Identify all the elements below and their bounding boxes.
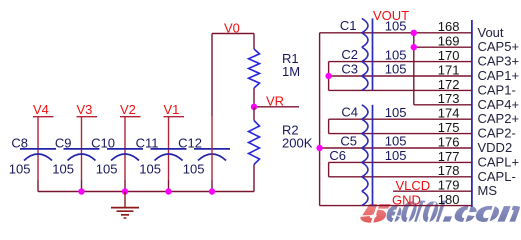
wire pin 172 row — [329, 89, 472, 91]
value 105 of C10 — [96, 161, 118, 176]
svg-text:C12: C12 — [178, 136, 202, 151]
ground — [111, 192, 139, 219]
label C8 — [11, 136, 28, 151]
svg-text:180: 180 — [438, 192, 460, 207]
label C12 — [178, 136, 202, 151]
wire VR to R2 — [253, 107, 255, 121]
value 105 of C9 — [52, 161, 74, 176]
svg-text:C11: C11 — [136, 136, 159, 151]
svg-text:172: 172 — [438, 77, 460, 92]
wire V4 to C8 — [37, 117, 39, 192]
pin number 175 — [438, 120, 460, 135]
pin name CAPL- — [478, 169, 516, 184]
pin number 180 — [438, 192, 460, 207]
net label VLCD — [396, 178, 431, 193]
value 200K — [282, 136, 313, 151]
wire V3 to C9 — [81, 117, 83, 192]
value 105 of C5 — [385, 134, 407, 149]
wire R1 to VR node — [253, 88, 255, 107]
label C2 — [341, 47, 358, 62]
junction on ground rail — [209, 188, 215, 194]
svg-text:105: 105 — [139, 161, 161, 176]
svg-text:CAP2-: CAP2- — [478, 126, 516, 141]
svg-text:179: 179 — [438, 178, 460, 193]
capacitor C10 — [107, 149, 143, 161]
svg-text:178: 178 — [438, 163, 460, 178]
pin name CAP1- — [478, 82, 516, 97]
svg-text:CAP4+: CAP4+ — [478, 97, 520, 112]
label C9 — [55, 136, 72, 151]
wire jog C6 to pin178 — [328, 162, 330, 176]
connector U1 edge — [471, 20, 473, 207]
svg-text:C1: C1 — [340, 18, 357, 33]
svg-text:105: 105 — [385, 148, 407, 163]
pin name CAP4+ — [478, 97, 520, 112]
junction on ground rail — [78, 188, 84, 194]
resistor R1 — [249, 49, 260, 88]
wire pin 180 row GND — [320, 205, 472, 207]
label C11 — [136, 136, 159, 151]
wire pin 173 row — [414, 104, 472, 106]
pin number 172 — [438, 77, 460, 92]
svg-text:CAP1-: CAP1- — [478, 82, 516, 97]
wire V0 horizontal — [212, 33, 254, 35]
pin number 171 — [438, 62, 460, 77]
svg-text:105: 105 — [9, 161, 31, 176]
junction VOUT pin168 — [411, 30, 417, 36]
pin number 179 — [438, 178, 460, 193]
capacitor C9 — [64, 149, 100, 161]
label C6 — [329, 148, 346, 163]
wire R2 to ground rail — [253, 165, 255, 192]
wire jog C4 to pin175 — [328, 119, 330, 133]
capacitor C11 — [151, 149, 187, 161]
label C1 — [340, 18, 357, 33]
junction C3 jog — [325, 73, 331, 79]
pin name CAP1+ — [478, 68, 520, 83]
svg-text:V3: V3 — [77, 102, 93, 117]
wire pin 178 row — [329, 176, 472, 178]
wire C12 top to V0 — [211, 34, 213, 192]
svg-text:C4: C4 — [341, 105, 358, 120]
svg-text:105: 105 — [96, 161, 118, 176]
wire V1 to C11 — [168, 117, 170, 192]
label C4 — [341, 105, 358, 120]
value 105 of C3 — [385, 62, 407, 77]
net label VR — [266, 94, 284, 109]
capacitor C12 — [194, 149, 230, 161]
wire VR stub — [254, 106, 299, 108]
wire pin 176 row / C5 — [320, 147, 472, 149]
svg-text:175: 175 — [438, 120, 460, 135]
node VR junction — [251, 104, 257, 110]
svg-text:GND: GND — [392, 192, 421, 207]
wire pin 171 row / C3 — [329, 75, 472, 77]
resistor R2 — [249, 121, 260, 165]
svg-text:CAP1+: CAP1+ — [478, 68, 520, 83]
wire V4 stub — [33, 116, 54, 118]
svg-text:168: 168 — [438, 19, 460, 34]
label R1 — [282, 51, 299, 66]
svg-text:105: 105 — [385, 47, 407, 62]
net label VOUT — [373, 8, 409, 23]
wire pin 168 row / C1 — [320, 32, 472, 34]
svg-text:C6: C6 — [329, 148, 346, 163]
svg-text:170: 170 — [438, 48, 460, 63]
pin name VDD2 — [478, 140, 513, 155]
svg-text:V2: V2 — [120, 102, 136, 117]
label R2 — [282, 123, 299, 138]
svg-text:105: 105 — [183, 161, 205, 176]
svg-text:105: 105 — [385, 62, 407, 77]
pin name MS — [478, 183, 498, 198]
wire jog C2/C3 to pin172 — [328, 62, 330, 91]
wire pin 177 row / C6 — [329, 161, 472, 163]
svg-text:169: 169 — [438, 34, 460, 49]
watermark logo 5e0l0l.com — [360, 197, 521, 228]
svg-text:MS: MS — [478, 183, 498, 198]
svg-text:CAP5+: CAP5+ — [478, 39, 520, 54]
net label V1 — [164, 102, 180, 117]
pin number 177 — [438, 149, 460, 164]
value 105 of C8 — [9, 161, 31, 176]
svg-text:176: 176 — [438, 134, 460, 149]
net label V0 — [224, 20, 240, 35]
junction C5 rail — [316, 145, 322, 151]
svg-text:177: 177 — [438, 149, 460, 164]
wire V2 to C10 — [124, 117, 126, 192]
wire vertical bus at pins — [413, 33, 415, 105]
svg-text:C8: C8 — [11, 136, 28, 151]
value 105 of C11 — [139, 161, 161, 176]
svg-text:CAP3+: CAP3+ — [478, 54, 520, 69]
svg-text:Vout: Vout — [478, 25, 504, 40]
svg-text:200K: 200K — [282, 136, 313, 151]
value 105 of C12 — [183, 161, 205, 176]
svg-text:1M: 1M — [282, 64, 300, 79]
svg-text:105: 105 — [52, 161, 74, 176]
capacitor group C1 C2 C3 plates — [362, 18, 373, 90]
label C3 — [341, 61, 358, 76]
pin name CAP2+ — [478, 111, 520, 126]
net label GND — [392, 192, 421, 207]
pin number 174 — [438, 106, 460, 121]
pin name CAP2- — [478, 126, 516, 141]
svg-text:171: 171 — [438, 62, 460, 77]
svg-text:CAP2+: CAP2+ — [478, 111, 520, 126]
value 105 of C2 — [385, 47, 407, 62]
capacitor C8 — [20, 149, 56, 161]
svg-text:VDD2: VDD2 — [478, 140, 513, 155]
value 105 of C6 — [385, 148, 407, 163]
value 105 of C1 — [385, 19, 407, 34]
svg-text:C3: C3 — [341, 61, 358, 76]
value 1M — [282, 64, 300, 79]
svg-text:V4: V4 — [33, 102, 49, 117]
pin name CAP3+ — [478, 54, 520, 69]
wire V0 down to R1 — [253, 34, 255, 50]
svg-text:C5: C5 — [340, 133, 357, 148]
svg-text:174: 174 — [438, 106, 460, 121]
svg-text:105: 105 — [385, 105, 407, 120]
junction pin169 — [411, 44, 417, 50]
pin number 178 — [438, 163, 460, 178]
pin number 176 — [438, 134, 460, 149]
junction on ground rail — [165, 188, 171, 194]
pin number 173 — [438, 91, 460, 106]
capacitor group C4 C5 C6 plates — [362, 105, 373, 206]
wire pin 174 row / C4 — [329, 118, 472, 120]
pin number 168 — [438, 19, 460, 34]
wire pin 175 row — [329, 133, 472, 135]
pin name CAP5+ — [478, 39, 520, 54]
wire pin 179 row VLCD — [393, 190, 472, 192]
junction on ground rail — [122, 188, 128, 194]
wire pin 169 row — [414, 46, 472, 48]
svg-text:C2: C2 — [341, 47, 358, 62]
wire pin 170 row / C2 — [329, 61, 472, 63]
value 105 of C4 — [385, 105, 407, 120]
wire ground rail — [38, 191, 254, 193]
label C10 — [91, 136, 115, 151]
svg-text:173: 173 — [438, 91, 460, 106]
pin number 170 — [438, 48, 460, 63]
net label V4 — [33, 102, 49, 117]
svg-text:105: 105 — [385, 134, 407, 149]
pin number 169 — [438, 34, 460, 49]
net label V2 — [120, 102, 136, 117]
svg-text:V1: V1 — [164, 102, 180, 117]
label C5 — [340, 133, 357, 148]
svg-text:CAPL-: CAPL- — [478, 169, 516, 184]
wire left rail VOUT..GND — [319, 33, 321, 206]
svg-text:C10: C10 — [91, 136, 115, 151]
svg-text:CAPL+: CAPL+ — [478, 154, 520, 169]
svg-text:C9: C9 — [55, 136, 72, 151]
net label V3 — [77, 102, 93, 117]
wire V2 stub — [120, 116, 141, 118]
svg-text:105: 105 — [385, 19, 407, 34]
pin name Vout — [478, 25, 504, 40]
pin name CAPL+ — [478, 154, 520, 169]
wire V3 stub — [77, 116, 98, 118]
svg-text:VLCD: VLCD — [396, 178, 431, 193]
wire V1 stub — [164, 116, 185, 118]
